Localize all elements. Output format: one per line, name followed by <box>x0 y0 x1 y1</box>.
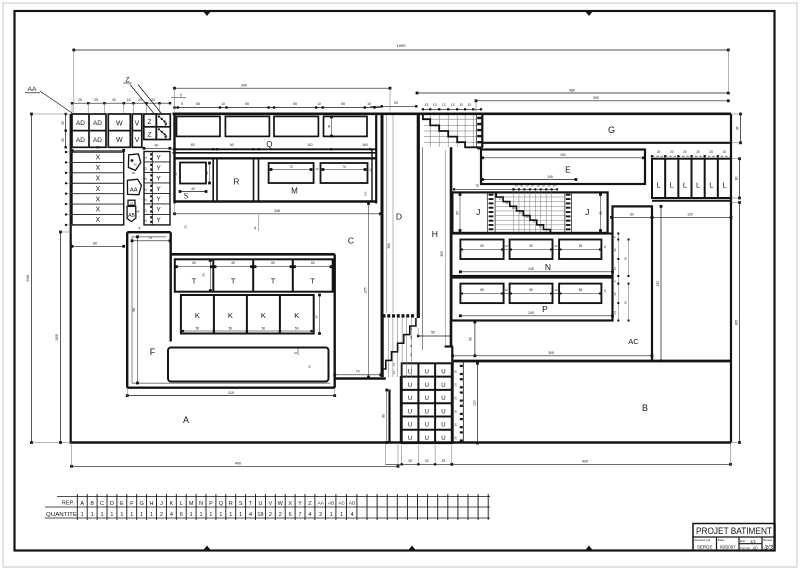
svg-text:10: 10 <box>525 215 529 219</box>
svg-text:13: 13 <box>409 327 413 331</box>
dimension 340 above Q <box>175 87 391 89</box>
svg-text:1000: 1000 <box>397 43 407 48</box>
svg-text:10: 10 <box>553 184 556 188</box>
svg-text:20: 20 <box>683 150 687 154</box>
svg-text:380: 380 <box>387 243 391 249</box>
svg-text:10: 10 <box>539 224 543 228</box>
svg-text:20: 20 <box>454 383 458 387</box>
svg-text:18: 18 <box>257 512 263 518</box>
door symbol pentagon <box>128 154 140 170</box>
room Q walls <box>173 113 175 204</box>
svg-text:C: C <box>100 501 104 507</box>
svg-text:X: X <box>95 165 100 172</box>
svg-text:4: 4 <box>249 512 252 518</box>
svg-text:20: 20 <box>454 423 458 427</box>
svg-text:A: A <box>183 415 189 425</box>
svg-text:160: 160 <box>364 191 368 196</box>
svg-text:Format:: Format: <box>740 546 751 550</box>
dimension 40 above Y column <box>144 147 170 149</box>
svg-text:10: 10 <box>317 102 321 106</box>
title block cell split ech format <box>739 543 762 545</box>
svg-text:70: 70 <box>289 165 293 169</box>
svg-text:13: 13 <box>409 336 413 340</box>
svg-text:30: 30 <box>613 292 617 296</box>
svg-text:15: 15 <box>613 311 617 315</box>
svg-text:13: 13 <box>451 103 455 107</box>
rooms J outer walls <box>452 192 607 233</box>
svg-text:500: 500 <box>25 274 30 281</box>
svg-text:D: D <box>396 212 402 222</box>
extension ticks above block <box>71 103 73 113</box>
wall H left <box>422 147 424 350</box>
svg-text:60: 60 <box>191 143 195 147</box>
svg-text:70: 70 <box>342 165 346 169</box>
dimension 365 far right <box>739 203 741 443</box>
svg-text:250: 250 <box>560 153 566 157</box>
svg-text:65: 65 <box>293 102 297 106</box>
svg-text:Y: Y <box>298 501 302 507</box>
svg-text:U: U <box>425 436 429 442</box>
svg-text:25: 25 <box>425 459 429 463</box>
svg-text:1: 1 <box>219 512 222 518</box>
svg-text:1: 1 <box>340 512 343 518</box>
extension lines in D <box>386 115 388 313</box>
svg-text:13: 13 <box>459 103 463 107</box>
svg-text:50: 50 <box>262 327 266 331</box>
svg-text:50: 50 <box>229 327 233 331</box>
svg-text:B: B <box>642 403 648 413</box>
svg-text:K: K <box>228 311 233 320</box>
svg-text:10: 10 <box>505 201 509 205</box>
svg-text:80: 80 <box>96 146 100 150</box>
svg-text:25: 25 <box>61 121 65 125</box>
svg-text:T: T <box>310 277 315 286</box>
svg-text:65: 65 <box>196 102 200 106</box>
dimension 98 in F left corridor <box>137 237 139 383</box>
svg-text:20: 20 <box>723 150 727 154</box>
svg-text:420: 420 <box>582 459 588 463</box>
dimension row 13x6 above staircase <box>423 108 481 110</box>
svg-text:1: 1 <box>209 512 212 518</box>
dimension 75 above J1 <box>454 188 514 190</box>
svg-text:P: P <box>209 501 213 507</box>
svg-text:4: 4 <box>308 512 311 518</box>
room AD block 2x2 <box>72 114 106 147</box>
room F notch wall vertical <box>169 232 171 341</box>
svg-text:65: 65 <box>579 288 583 292</box>
dimension 65 in J1 <box>459 195 461 231</box>
svg-text:15: 15 <box>127 98 131 102</box>
svg-text:13: 13 <box>433 103 437 107</box>
staircase top outline <box>423 115 483 147</box>
svg-text:2: 2 <box>269 512 272 518</box>
svg-text:13: 13 <box>392 371 396 375</box>
dimension 74 in F notch <box>132 240 170 242</box>
parts table lines <box>57 496 490 498</box>
svg-text:V: V <box>135 121 140 128</box>
svg-text:25: 25 <box>61 138 65 142</box>
room F outer walls <box>127 231 171 233</box>
svg-text:60: 60 <box>315 315 319 319</box>
svg-text:20: 20 <box>454 370 458 374</box>
svg-text:U: U <box>408 436 412 442</box>
svg-text:65: 65 <box>480 288 484 292</box>
svg-text:15: 15 <box>130 201 134 205</box>
svg-text:305: 305 <box>548 351 554 355</box>
svg-text:U: U <box>425 409 429 415</box>
svg-text:1: 1 <box>200 512 203 518</box>
wall under L cells <box>652 200 731 202</box>
svg-text:T: T <box>192 277 197 286</box>
svg-text:Z: Z <box>126 77 130 84</box>
svg-text:U: U <box>441 396 445 402</box>
centering mark top-left <box>203 11 211 16</box>
svg-text:25: 25 <box>442 459 446 463</box>
svg-text:20: 20 <box>657 150 661 154</box>
dimension 50 under D stairs <box>418 335 451 337</box>
room P walls <box>451 278 612 321</box>
svg-text:26: 26 <box>308 365 312 369</box>
svg-text:AC: AC <box>338 501 345 506</box>
svg-text:80: 80 <box>382 414 386 418</box>
svg-text:65: 65 <box>579 244 583 248</box>
svg-text:N: N <box>199 501 203 507</box>
room F inner face lines <box>131 237 133 383</box>
svg-text:W: W <box>278 501 284 507</box>
svg-text:W: W <box>116 137 123 144</box>
dimensions 25 25 25 under U cells <box>386 463 452 465</box>
staircase middle outline <box>496 192 550 234</box>
svg-text:5: 5 <box>181 102 183 106</box>
room W block <box>108 114 130 147</box>
svg-text:U: U <box>441 409 445 415</box>
svg-text:D: D <box>110 501 114 507</box>
dimension 305 in AC <box>453 355 653 357</box>
svg-text:60: 60 <box>231 261 235 265</box>
svg-text:A0: A0 <box>752 545 758 550</box>
svg-text:E: E <box>120 501 124 507</box>
svg-text:T: T <box>231 277 236 286</box>
svg-text:L: L <box>180 501 183 507</box>
svg-text:6: 6 <box>289 512 292 518</box>
svg-text:30: 30 <box>112 98 116 102</box>
svg-text:G: G <box>140 501 144 507</box>
svg-text:F: F <box>150 347 156 357</box>
svg-text:80: 80 <box>93 242 97 246</box>
dimension 120 right of U cells <box>477 363 479 443</box>
small dimensions right of N P <box>617 234 619 321</box>
svg-text:319: 319 <box>228 391 234 395</box>
svg-text:K: K <box>294 311 299 320</box>
svg-text:T: T <box>271 277 276 286</box>
svg-text:10: 10 <box>498 197 502 201</box>
svg-text:Z: Z <box>148 119 152 126</box>
svg-text:10: 10 <box>542 184 545 188</box>
svg-text:3/3: 3/3 <box>764 544 773 551</box>
svg-text:10: 10 <box>532 220 536 224</box>
wall U left outer <box>400 376 402 443</box>
dimension 500 far left <box>31 114 33 443</box>
dimension 30 right of S box <box>209 163 211 183</box>
svg-text:7: 7 <box>299 512 302 518</box>
room Q window 2 <box>225 116 269 136</box>
dimension 80 lower A right <box>386 390 388 443</box>
wall H right <box>450 147 453 347</box>
svg-text:65: 65 <box>455 211 459 215</box>
room S inner box <box>180 163 206 184</box>
svg-text:235: 235 <box>656 281 660 287</box>
svg-text:365: 365 <box>735 320 739 326</box>
svg-text:X: X <box>95 186 100 193</box>
svg-text:1: 1 <box>81 512 84 518</box>
svg-text:10: 10 <box>519 210 523 214</box>
grid of U cells <box>402 363 452 443</box>
svg-text:13: 13 <box>392 363 396 367</box>
svg-text:30: 30 <box>205 171 209 175</box>
svg-text:AA: AA <box>130 187 138 193</box>
dimension 30 in window 4 <box>331 117 333 136</box>
room J2 door strip <box>564 192 566 233</box>
svg-text:4: 4 <box>139 227 141 231</box>
svg-text:N: N <box>545 262 551 272</box>
room M box 1 <box>269 163 314 183</box>
parts table column ticks <box>76 494 78 520</box>
svg-text:Y: Y <box>156 207 161 214</box>
dimension 60 vertical in AC <box>474 322 476 356</box>
svg-text:U: U <box>408 396 412 402</box>
svg-text:R: R <box>229 501 233 507</box>
wall A right lower <box>388 390 390 443</box>
dimension 235 right room <box>660 206 662 361</box>
svg-text:245: 245 <box>528 311 534 315</box>
svg-text:1: 1 <box>140 512 143 518</box>
room Q window 1 <box>177 116 221 136</box>
room G bottom wall <box>483 142 731 144</box>
svg-text:32: 32 <box>184 225 188 229</box>
svg-text:50: 50 <box>295 327 299 331</box>
svg-text:60: 60 <box>311 261 315 265</box>
room P box 3 <box>559 284 601 304</box>
dimension row 5 65 10 65 65 10 65 15 above Q <box>175 107 382 109</box>
svg-text:50: 50 <box>202 273 206 277</box>
svg-text:145: 145 <box>547 175 553 179</box>
svg-text:S: S <box>184 192 188 201</box>
dimension 25/25 left of block <box>65 114 67 147</box>
svg-text:60: 60 <box>623 257 627 261</box>
title block header separator <box>693 536 775 538</box>
svg-text:20: 20 <box>454 436 458 440</box>
svg-text:40: 40 <box>155 144 159 148</box>
svg-text:60: 60 <box>271 261 275 265</box>
door symbol AA <box>127 179 141 195</box>
svg-text:H: H <box>150 501 154 507</box>
svg-text:2: 2 <box>319 512 322 518</box>
svg-text:13: 13 <box>442 103 446 107</box>
svg-text:PROJET BATIMENT: PROJET BATIMENT <box>696 526 772 536</box>
dimension 1000 top <box>74 49 729 51</box>
wall D right <box>417 114 420 318</box>
dimension line through N boxes <box>462 249 600 251</box>
svg-text:60: 60 <box>469 337 473 341</box>
svg-text:1: 1 <box>190 512 193 518</box>
svg-text:Z: Z <box>148 132 152 139</box>
staircase top treads grid <box>424 118 477 120</box>
dimensions 60 inside T cells <box>177 266 212 268</box>
svg-text:K: K <box>195 311 200 320</box>
svg-text:1: 1 <box>101 512 104 518</box>
svg-text:1: 1 <box>120 512 123 518</box>
dimension 319 under F <box>127 395 335 397</box>
svg-text:120: 120 <box>472 400 476 406</box>
svg-text:AD: AD <box>76 137 85 144</box>
svg-text:X: X <box>95 207 100 214</box>
staircase bottom outline <box>382 318 416 377</box>
svg-text:10: 10 <box>531 184 534 188</box>
svg-text:40: 40 <box>191 187 195 191</box>
svg-text:L: L <box>696 181 700 190</box>
row of T cells <box>175 259 333 291</box>
svg-text:45: 45 <box>736 126 740 130</box>
svg-text:L: L <box>709 181 713 190</box>
svg-text:M: M <box>189 501 194 507</box>
svg-text:10: 10 <box>547 184 550 188</box>
svg-text:U: U <box>425 396 429 402</box>
row of K cells <box>181 295 314 334</box>
svg-text:G: G <box>608 125 615 135</box>
centering mark top-right <box>585 11 593 16</box>
svg-text:4: 4 <box>170 512 173 518</box>
svg-text:10: 10 <box>537 184 540 188</box>
svg-text:X: X <box>95 217 100 224</box>
room N box 2 <box>510 240 553 260</box>
svg-text:1: 1 <box>150 512 153 518</box>
svg-text:120: 120 <box>687 213 693 217</box>
svg-text:60: 60 <box>230 143 234 147</box>
dimension 145 in E <box>483 179 576 181</box>
svg-text:10: 10 <box>520 184 523 188</box>
svg-text:AD: AD <box>349 501 356 506</box>
svg-text:10: 10 <box>315 167 319 171</box>
svg-text:275: 275 <box>363 287 367 293</box>
svg-text:M: M <box>291 187 298 196</box>
svg-text:50: 50 <box>394 101 398 105</box>
svg-text:10: 10 <box>515 184 518 188</box>
svg-text:X: X <box>95 196 100 203</box>
table X rows <box>72 152 124 225</box>
svg-text:W: W <box>116 121 123 128</box>
svg-text:2: 2 <box>160 512 163 518</box>
dimension 390 top right <box>476 100 728 102</box>
wall building right <box>730 114 732 443</box>
dimension 60 above AC <box>612 216 653 218</box>
svg-text:60: 60 <box>623 301 627 305</box>
room N box 1 <box>460 240 503 260</box>
dashed dimension line above L cells <box>652 155 731 157</box>
svg-text:70: 70 <box>356 370 360 374</box>
svg-text:65: 65 <box>529 288 533 292</box>
dimension 40 under S box <box>180 191 206 193</box>
svg-text:AD: AD <box>76 120 85 127</box>
svg-text:4: 4 <box>351 512 354 518</box>
dimension 355 left <box>60 232 62 443</box>
svg-text:J: J <box>476 207 480 217</box>
svg-text:P: P <box>542 304 548 314</box>
dimension row 10x8 above staircase <box>514 188 558 190</box>
hatched cell right of Z <box>156 114 170 140</box>
svg-text:345: 345 <box>274 209 280 213</box>
dimension 45 right of G <box>740 114 742 143</box>
dimension 50 between T1 T2 <box>209 261 211 291</box>
svg-text:U: U <box>441 370 445 376</box>
tick marks left of X table <box>65 151 73 153</box>
dimension row 25 25 30 15 20 20 above block <box>72 102 170 104</box>
centering mark bottom-center <box>408 546 416 551</box>
svg-text:5: 5 <box>180 94 182 98</box>
svg-text:390: 390 <box>593 96 599 100</box>
svg-text:50: 50 <box>431 331 435 335</box>
svg-text:13: 13 <box>467 103 471 107</box>
room Q window 3 <box>274 116 318 136</box>
dimension line through P boxes <box>462 293 600 295</box>
dimension 400 bottom left <box>72 465 399 467</box>
room V block <box>132 114 142 147</box>
svg-text:U: U <box>441 383 445 389</box>
svg-text:25: 25 <box>78 98 82 102</box>
svg-text:09/2007: 09/2007 <box>720 544 736 549</box>
dimension row under Q windows <box>174 148 176 150</box>
svg-text:AD: AD <box>93 137 102 144</box>
svg-text:15: 15 <box>369 168 373 172</box>
room F inner bottom room <box>168 348 329 382</box>
room E walls <box>481 150 645 185</box>
svg-text:QUANTITE: QUANTITE <box>46 512 78 518</box>
svg-text:1: 1 <box>110 512 113 518</box>
staircase bottom risers <box>383 318 385 377</box>
svg-text:74: 74 <box>148 236 152 240</box>
dimension 120 above right room <box>652 216 731 218</box>
svg-text:65: 65 <box>341 102 345 106</box>
door dashes in Y column <box>150 153 152 155</box>
wall AC bottom / B top <box>452 360 731 363</box>
svg-text:X: X <box>288 501 292 507</box>
svg-text:2: 2 <box>279 512 282 518</box>
svg-text:1/1: 1/1 <box>750 539 756 544</box>
svg-text:Q: Q <box>219 501 224 507</box>
svg-text:1: 1 <box>229 512 232 518</box>
svg-text:15: 15 <box>367 102 371 106</box>
svg-text:Y: Y <box>156 175 161 182</box>
svg-text:S: S <box>239 501 243 507</box>
wall AC right <box>651 205 653 361</box>
svg-text:160: 160 <box>362 143 368 147</box>
centering mark bottom-right <box>585 546 593 551</box>
svg-text:20: 20 <box>696 150 700 154</box>
staircase middle treads grid <box>495 196 565 198</box>
svg-text:X: X <box>95 155 100 162</box>
svg-text:H: H <box>432 229 438 239</box>
svg-text:65: 65 <box>529 244 533 248</box>
svg-text:U: U <box>408 423 412 429</box>
svg-text:355: 355 <box>54 333 59 340</box>
svg-text:B: B <box>90 501 94 507</box>
svg-text:30: 30 <box>327 125 331 129</box>
svg-text:92: 92 <box>253 226 257 230</box>
svg-text:75: 75 <box>475 184 479 188</box>
svg-text:13: 13 <box>425 103 429 107</box>
svg-text:U: U <box>425 423 429 429</box>
table Y column <box>144 152 170 225</box>
svg-text:J: J <box>585 207 589 217</box>
